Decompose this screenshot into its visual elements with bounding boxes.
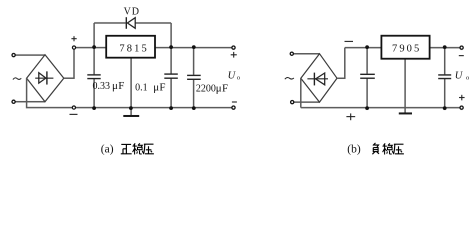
wire: VD loop right riser [170, 23, 172, 48]
svg-text:(a): (a) [101, 143, 114, 155]
terminal (a) input top [12, 53, 15, 56]
wire: (b) top rail [345, 47, 460, 49]
node +DC open circle (a) [72, 46, 75, 49]
capacitor C1 plates [87, 74, 100, 76]
terminal (b) input bottom [291, 101, 294, 104]
svg-text:VD: VD [124, 6, 140, 17]
minus sign (b) output - [459, 55, 464, 57]
svg-text:2200: 2200 [196, 84, 216, 95]
wire: (b) top-left input wire [294, 53, 320, 55]
minus sign (a) output - [232, 101, 237, 103]
capacitor C2 plates [164, 73, 178, 75]
diode VD [126, 17, 135, 29]
svg-text:0.33: 0.33 [92, 81, 110, 92]
AC source tilde (b) [285, 78, 294, 80]
ground symbol (b) [399, 112, 412, 114]
ground symbol (a) [123, 115, 139, 117]
svg-text:0.1: 0.1 [135, 83, 148, 94]
diode inside bridge B1 [35, 71, 53, 84]
AC source tilde (a) [13, 78, 21, 80]
svg-text:(b): (b) [347, 143, 361, 155]
caption hanzi wen (a) [132, 143, 143, 154]
caption hanzi ya (b) [393, 144, 403, 154]
wire: (b) bottom rail [301, 107, 460, 109]
minus sign (a) bridge - [69, 113, 77, 115]
capacitor C3 2200uF leads [193, 48, 195, 75]
svg-text:μF: μF [153, 82, 166, 94]
regulator U1 ground pin wire [130, 58, 132, 115]
svg-text:o: o [237, 74, 240, 81]
capacitor C4 plates [360, 73, 375, 75]
svg-text:μF: μF [216, 83, 229, 95]
plus sign (b) bridge + [346, 113, 355, 120]
bridge rectifier B2 diamond [301, 54, 337, 102]
capacitor C1 0.33uF leads [93, 48, 95, 75]
wire: (a) bottom rail [74, 107, 232, 109]
wire: (b) left vertex drop to bottom rail [300, 78, 302, 107]
junction dots (a) top rail [92, 45, 196, 49]
terminal (b) output bottom [460, 106, 463, 109]
caption hanzi fu [372, 143, 379, 154]
terminal (a) output top [232, 46, 235, 49]
minus sign (b) bridge - [345, 40, 354, 42]
svg-text:7905: 7905 [392, 44, 421, 55]
plus sign (b) output + [459, 95, 465, 101]
wire: (a) right vertex stub and riser to + node [64, 49, 74, 78]
regulator U2 ground pin wire [404, 59, 406, 113]
terminal (a) input bottom [12, 100, 15, 103]
plus sign (a) bridge + [71, 36, 76, 41]
wire: (a) left vertex drop to bottom rail [27, 78, 74, 107]
svg-text:μF: μF [112, 80, 125, 92]
regulator U1 7815 box [106, 36, 155, 58]
wire: (a) top rail [76, 47, 232, 49]
wire: (a) top-left input wire [15, 54, 45, 56]
svg-text:o: o [466, 74, 469, 81]
caption hanzi wen (b) [382, 143, 393, 154]
capacitor C4 input leads [366, 48, 368, 74]
plus sign (a) output + [231, 52, 237, 58]
capacitor C5 plates [438, 74, 451, 76]
caption hanzi ya (a) [143, 144, 153, 154]
bridge rectifier B1 diamond [27, 55, 64, 102]
junction dots (a) bottom rail [92, 106, 196, 110]
terminal (a) output bottom [232, 106, 235, 109]
caption hanzi zheng [121, 144, 132, 153]
wire: (b) right vertex stub and riser to top rail [337, 48, 345, 79]
wire: VD loop top right segment [135, 22, 171, 24]
wire: VD loop top left segment [94, 22, 126, 24]
terminal (b) input top [290, 52, 293, 55]
wire: (a) bottom-left input wire [15, 101, 45, 103]
regulator U2 7905 box [381, 36, 429, 59]
capacitor C5 output leads [444, 48, 446, 75]
capacitor C2 0.1uF leads [170, 48, 172, 74]
node -DC open circle (a) [72, 106, 75, 109]
svg-text:7815: 7815 [119, 43, 148, 54]
wire: VD loop left riser [93, 23, 95, 48]
terminal (b) output top [460, 46, 463, 49]
junction dots (b) [365, 45, 446, 110]
capacitor C3 plates [187, 74, 201, 76]
diode inside bridge B2 [307, 73, 328, 86]
wire: (b) bottom-left input wire [294, 101, 320, 103]
